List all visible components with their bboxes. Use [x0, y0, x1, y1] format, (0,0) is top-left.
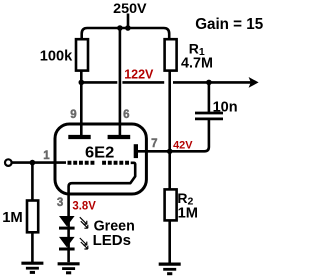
svg-text:1M: 1M	[2, 209, 23, 226]
tube cathode hook and pin3 lead	[69, 163, 136, 262]
wire pin6 drop	[119, 28, 122, 137]
svg-text:9: 9	[70, 109, 76, 121]
svg-text:LEDs: LEDs	[93, 232, 131, 249]
capacitor C1 10n plates	[195, 112, 223, 115]
ground 1M	[21, 262, 43, 265]
junction 100k-output	[79, 80, 85, 86]
arrowhead output	[249, 77, 259, 88]
ground LEDs	[58, 262, 80, 265]
wire 1M top lead	[31, 163, 34, 201]
svg-text:3.8V: 3.8V	[72, 201, 96, 213]
wire 1M bottom lead	[31, 232, 34, 263]
tube 6E2 envelope	[55, 124, 146, 194]
junction input-1M	[30, 160, 36, 166]
wire output segment 2	[122, 81, 164, 84]
junction rail-pin6	[117, 25, 123, 31]
wire top rail	[82, 28, 170, 39]
svg-text:7: 7	[151, 138, 157, 150]
svg-text:10n: 10n	[213, 99, 238, 116]
svg-text:3: 3	[57, 197, 63, 209]
resistor 100k	[76, 39, 88, 70]
resistor R2 1M	[165, 189, 177, 220]
ground R2	[159, 263, 181, 266]
svg-text:122V: 122V	[124, 67, 154, 81]
svg-text:6: 6	[123, 109, 129, 121]
wire pin7 to capacitor	[137, 120, 209, 152]
wire output segment 3 with arrow	[173, 81, 252, 84]
junction output-cap	[206, 80, 212, 86]
svg-text:4.7M: 4.7M	[181, 56, 213, 72]
tube grid dashes left	[68, 161, 95, 165]
resistor R1 4.7M	[165, 39, 177, 70]
capacitor C1 10n top lead	[208, 82, 211, 113]
wire input	[12, 161, 66, 164]
tube grid dashes right	[102, 161, 129, 165]
tube pin 9 target bar	[68, 135, 90, 139]
wire 250V lead	[127, 14, 130, 29]
svg-text:250V: 250V	[113, 0, 147, 16]
svg-text:1: 1	[43, 150, 50, 162]
LED D2 arrows	[80, 238, 87, 245]
svg-text:100k: 100k	[40, 48, 73, 64]
LED D1 arrows	[80, 217, 87, 224]
LED D1	[59, 216, 75, 226]
resistor 1M input	[27, 201, 38, 233]
junction anode node 42V	[167, 149, 173, 155]
wire R2 bottom	[168, 220, 171, 263]
svg-text:Gain = 15: Gain = 15	[195, 16, 263, 33]
wire R1 to R2 vertical	[168, 70, 171, 191]
svg-text:1M: 1M	[178, 204, 198, 221]
junction rail-250V	[125, 25, 131, 31]
wire output segment 1	[81, 81, 117, 84]
tube pin 7 bar	[134, 144, 138, 158]
svg-text:6E2: 6E2	[85, 144, 114, 161]
LED D2	[59, 237, 75, 247]
svg-text:42V: 42V	[173, 139, 193, 151]
tube pin 6 target bar	[108, 135, 131, 139]
wire 100k bottom / pin9 drop	[80, 70, 83, 138]
input terminal	[5, 159, 12, 166]
